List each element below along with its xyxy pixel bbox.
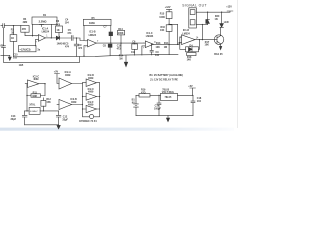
svg-text:104: 104 [65,21,70,24]
svg-text:LM324: LM324 [182,32,190,35]
svg-text:+5V: +5V [54,71,59,74]
svg-text:5K6: 5K6 [56,23,61,26]
svg-text:LM324: LM324 [42,31,50,34]
svg-text:473: 473 [117,48,122,51]
svg-text:SIGNAL OUT: SIGNAL OUT [182,3,207,7]
svg-text:=12V(IC3): =12V(IC3) [20,48,31,51]
svg-text:9V: 9V [132,101,135,104]
svg-text:1M: 1M [119,57,122,60]
svg-text:10K: 10K [205,43,210,46]
svg-text:103: 103 [155,54,160,57]
svg-text:R13: R13 [156,42,161,45]
svg-text:4069: 4069 [88,104,94,107]
svg-text:+5V: +5V [188,85,193,88]
svg-text:4069: 4069 [33,78,39,81]
svg-text:R14: R14 [164,42,169,45]
svg-text:R14: R14 [118,28,123,31]
svg-text:102: 102 [131,51,136,54]
svg-text:1K: 1K [11,32,14,35]
svg-text:100K: 100K [159,16,165,19]
svg-text:15K: 15K [46,101,51,104]
svg-text:2M2: 2M2 [23,21,28,24]
svg-text:4069: 4069 [71,101,77,104]
svg-text:10K: 10K [160,29,165,32]
svg-text:4069: 4069 [88,91,94,94]
svg-text:VOLT REG: VOLT REG [162,91,174,94]
svg-text:2.2MΩ: 2.2MΩ [39,20,47,24]
svg-text:4069: 4069 [65,74,71,77]
svg-text:1M: 1M [164,46,167,49]
svg-text:10K: 10K [156,46,161,49]
svg-text:4069: 4069 [88,77,94,80]
svg-text:BG1 35: BG1 35 [214,53,223,56]
svg-text:78L05: 78L05 [165,96,172,99]
svg-text:LM324: LM324 [89,34,97,37]
svg-text:4.8MHZ: 4.8MHZ [30,111,38,113]
svg-text:14K: 14K [187,59,192,62]
svg-text:+12V: +12V [226,5,232,8]
svg-text:1MΩ: 1MΩ [89,21,95,25]
svg-text:474: 474 [67,32,72,35]
svg-text:1M8: 1M8 [32,95,37,98]
svg-text:33pF: 33pF [11,118,17,121]
svg-text:1K: 1K [57,29,60,32]
svg-text:LED: LED [224,21,229,24]
svg-text:474: 474 [65,45,70,48]
svg-text:J1: 12V DC RELAY TYPE: J1: 12V DC RELAY TYPE [150,78,178,81]
svg-text:LM324: LM324 [146,35,154,38]
svg-text:1Ω5: 1Ω5 [19,64,24,67]
svg-text:100K: 100K [118,32,124,35]
svg-text:1K: 1K [11,37,14,40]
svg-text:47K: 47K [22,28,27,31]
svg-text:1N: 1N [215,18,218,21]
svg-text:105: 105 [13,56,18,59]
svg-text:B1: 9V BATTERY (ALKALINE): B1: 9V BATTERY (ALKALINE) [150,74,184,77]
svg-text:474: 474 [78,47,83,50]
svg-text:47Ω: 47Ω [141,91,146,94]
svg-text:33μF: 33μF [62,119,68,122]
svg-text:XTAL: XTAL [29,103,36,106]
svg-text:100μF: 100μF [154,107,161,110]
svg-text:+12V: +12V [165,6,171,9]
svg-text:104: 104 [197,100,202,103]
svg-text:4/7060HC 74 Z4: 4/7060HC 74 Z4 [79,120,97,123]
